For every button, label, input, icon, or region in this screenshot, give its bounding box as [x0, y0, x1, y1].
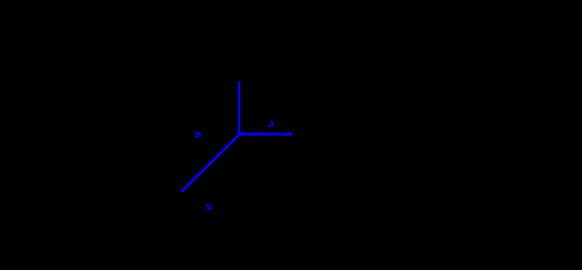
notch on wire W2 top edge (left): [270, 132, 274, 133]
notch on wire W2 top edge (right): [280, 132, 284, 133]
wire W3 (diagonal, node to lower-left): [182, 134, 240, 191]
wire W1 (vertical, from top into node): [238, 82, 241, 134]
notch on wire W1 right edge: [239, 123, 242, 125]
node N (junction of three wires): [182, 82, 292, 192]
label i1 (left of vertical wire): [195, 132, 201, 138]
label i2 (above horizontal wire): [268, 121, 274, 127]
label i3 (below diagonal wire): [206, 204, 212, 210]
wire W2 (horizontal, node to right): [238, 133, 292, 136]
